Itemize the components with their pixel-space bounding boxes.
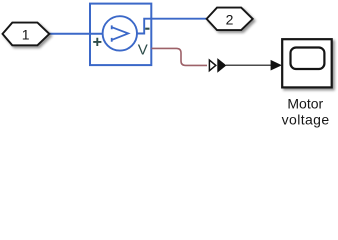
- svg-text:2: 2: [226, 12, 234, 28]
- svg-text:Motor: Motor: [287, 96, 323, 112]
- svg-text:V: V: [138, 41, 148, 58]
- svg-text:voltage: voltage: [282, 112, 330, 128]
- svg-text:1: 1: [22, 27, 30, 43]
